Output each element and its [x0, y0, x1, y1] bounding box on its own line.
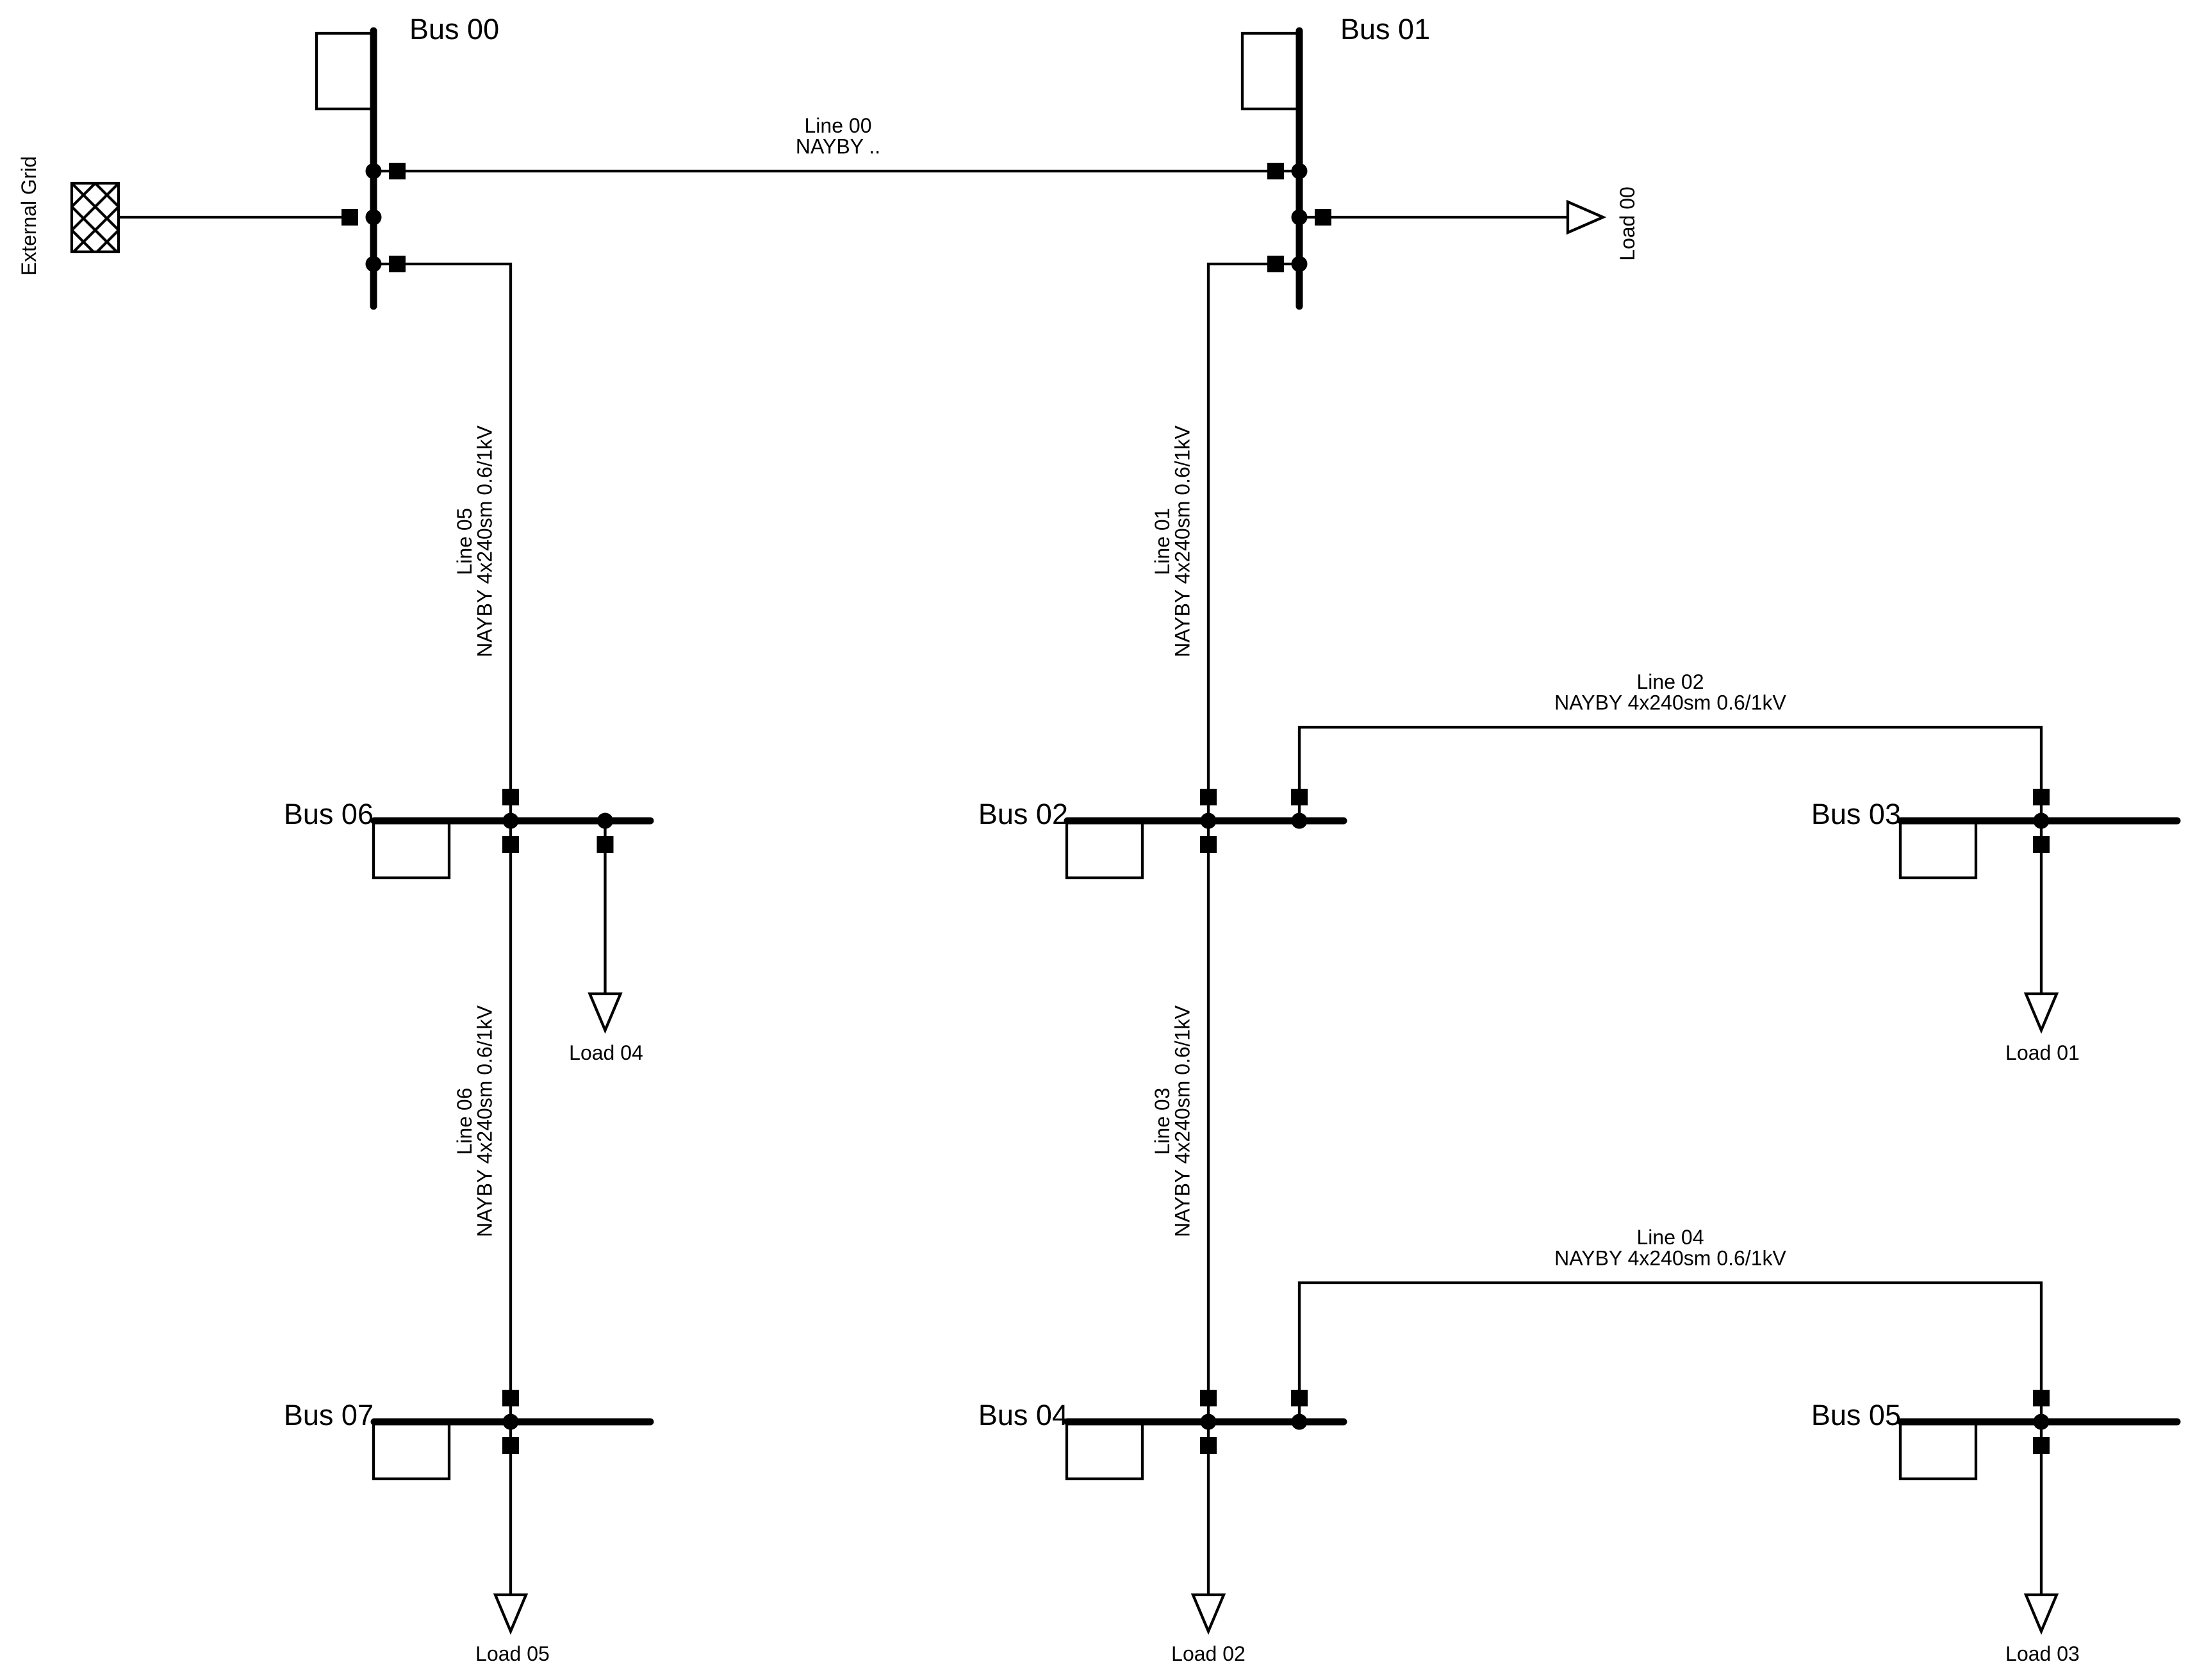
svg-text:Load 00: Load 00	[1616, 186, 1639, 261]
bus Bus 04 busbar	[1067, 1419, 1344, 1426]
bus Bus 05 busbar	[1901, 1419, 2177, 1426]
load Load 00 arrow	[1568, 202, 1603, 233]
bus Bus 01 rectangle	[1242, 33, 1299, 109]
svg-text:Bus 05: Bus 05	[1811, 1399, 1901, 1431]
svg-text:Bus 02: Bus 02	[978, 798, 1068, 830]
switch external grid / Bus 00	[341, 209, 358, 226]
bus Bus 05 rectangle	[1900, 1422, 1976, 1479]
svg-text:Line 00NAYBY ..: Line 00NAYBY ..	[796, 114, 880, 158]
switch Line 02 / Bus 03	[2033, 789, 2050, 805]
line Line 03	[1207, 821, 1210, 1422]
switch Line 06 / Bus 07	[502, 1390, 519, 1406]
svg-text:Bus 04: Bus 04	[978, 1399, 1068, 1431]
node Bus 04 connection points	[1201, 1414, 1308, 1430]
switch Line 06 / Bus 06	[502, 836, 519, 853]
svg-text:Bus 00: Bus 00	[409, 13, 499, 45]
label Bus 06	[284, 798, 374, 830]
svg-text:External Grid: External Grid	[17, 156, 40, 276]
switch Line 04 / Bus 04	[1291, 1390, 1308, 1406]
load Load 04 arrow	[590, 994, 621, 1030]
switch Load 00 / Bus 01	[1315, 209, 1331, 226]
svg-text:Load 02: Load 02	[1171, 1642, 1246, 1665]
label Line 03	[1151, 1005, 1194, 1237]
label Bus 02	[978, 798, 1068, 830]
load Load 04 wire	[604, 821, 606, 994]
node Bus 02 connection points	[1201, 813, 1308, 829]
label Bus 07	[284, 1399, 374, 1431]
node Bus 05 connection points	[2034, 1414, 2050, 1430]
svg-text:Load 05: Load 05	[475, 1642, 550, 1665]
load Load 00 wire	[1299, 216, 1568, 218]
load Load 02 arrow	[1193, 1595, 1224, 1631]
switch Line 00 / Bus 01	[1267, 163, 1284, 179]
node Bus 00 connection points	[366, 163, 382, 272]
svg-text:Load 04: Load 04	[569, 1041, 643, 1064]
label Load 01	[2005, 1041, 2080, 1064]
line Line 05	[374, 264, 511, 821]
switch Load 04	[597, 836, 614, 853]
load Load 01 wire	[2040, 821, 2043, 994]
switch Load 02	[1200, 1437, 1217, 1454]
switch Line 01 / Bus 02	[1200, 789, 1217, 805]
load Load 02 wire	[1207, 1422, 1210, 1595]
label Bus 04	[978, 1399, 1068, 1431]
node Bus 01 connection points	[1292, 163, 1308, 272]
wire external grid to Bus 00	[119, 216, 350, 218]
svg-text:Bus 06: Bus 06	[284, 798, 374, 830]
label Load 04	[569, 1041, 643, 1064]
bus Bus 06 busbar	[374, 818, 650, 825]
label Load 00	[1616, 186, 1639, 261]
load Load 05 wire	[509, 1422, 512, 1595]
load Load 01 arrow	[2026, 994, 2057, 1030]
label Bus 00	[409, 13, 499, 45]
svg-text:Load 03: Load 03	[2005, 1642, 2080, 1665]
bus Bus 03 busbar	[1901, 818, 2177, 825]
bus Bus 02 rectangle	[1067, 821, 1142, 878]
bus Bus 02 busbar	[1067, 818, 1344, 825]
line Line 01	[1208, 264, 1299, 821]
label Line 05	[453, 425, 497, 657]
switch Line 03 / Bus 02	[1200, 836, 1217, 853]
switch Line 05 / Bus 06	[502, 789, 519, 805]
load Load 03 arrow	[2026, 1595, 2057, 1631]
label Bus 05	[1811, 1399, 1901, 1431]
external grid symbol	[72, 183, 119, 252]
label Bus 01	[1340, 13, 1430, 45]
load Load 05 arrow	[495, 1595, 526, 1631]
svg-text:Bus 01: Bus 01	[1340, 13, 1430, 45]
svg-text:Bus 07: Bus 07	[284, 1399, 374, 1431]
svg-text:Bus 03: Bus 03	[1811, 798, 1901, 830]
line Line 06	[509, 821, 512, 1422]
switch Line 02 / Bus 02	[1291, 789, 1308, 805]
node Bus 07 connection points	[503, 1414, 519, 1430]
label Line 01	[1151, 425, 1194, 657]
node Bus 03 connection points	[2034, 813, 2050, 829]
label Load 03	[2005, 1642, 2080, 1665]
bus Bus 03 rectangle	[1900, 821, 1976, 878]
line Line 02	[1299, 727, 2041, 821]
bus Bus 07 rectangle	[374, 1422, 449, 1479]
bus Bus 07 busbar	[374, 1419, 650, 1426]
label Load 05	[475, 1642, 550, 1665]
bus Bus 06 rectangle	[374, 821, 449, 878]
switch Line 04 / Bus 05	[2033, 1390, 2050, 1406]
node Bus 06 connection points	[503, 813, 614, 829]
label Line 02	[1554, 670, 1786, 714]
bus Bus 01 busbar	[1296, 31, 1303, 306]
switch Line 00 / Bus 00	[389, 163, 406, 179]
label Line 06	[453, 1005, 497, 1237]
switch Load 05	[502, 1437, 519, 1454]
label Load 02	[1171, 1642, 1246, 1665]
line Line 00	[374, 170, 1299, 172]
switch Line 03 / Bus 04	[1200, 1390, 1217, 1406]
label Line 04	[1554, 1226, 1786, 1270]
switch Load 01	[2033, 836, 2050, 853]
line Line 04	[1299, 1283, 2041, 1422]
external grid label	[17, 156, 40, 276]
bus Bus 00 rectangle	[317, 33, 374, 109]
label Line 00	[796, 114, 880, 158]
bus Bus 04 rectangle	[1067, 1422, 1142, 1479]
svg-text:Load 01: Load 01	[2005, 1041, 2080, 1064]
switch Load 03	[2033, 1437, 2050, 1454]
label Bus 03	[1811, 798, 1901, 830]
switch Line 01 / Bus 01	[1267, 256, 1284, 272]
load Load 03 wire	[2040, 1422, 2043, 1595]
switch Line 05 / Bus 00	[389, 256, 406, 272]
bus Bus 00 busbar	[370, 31, 377, 306]
